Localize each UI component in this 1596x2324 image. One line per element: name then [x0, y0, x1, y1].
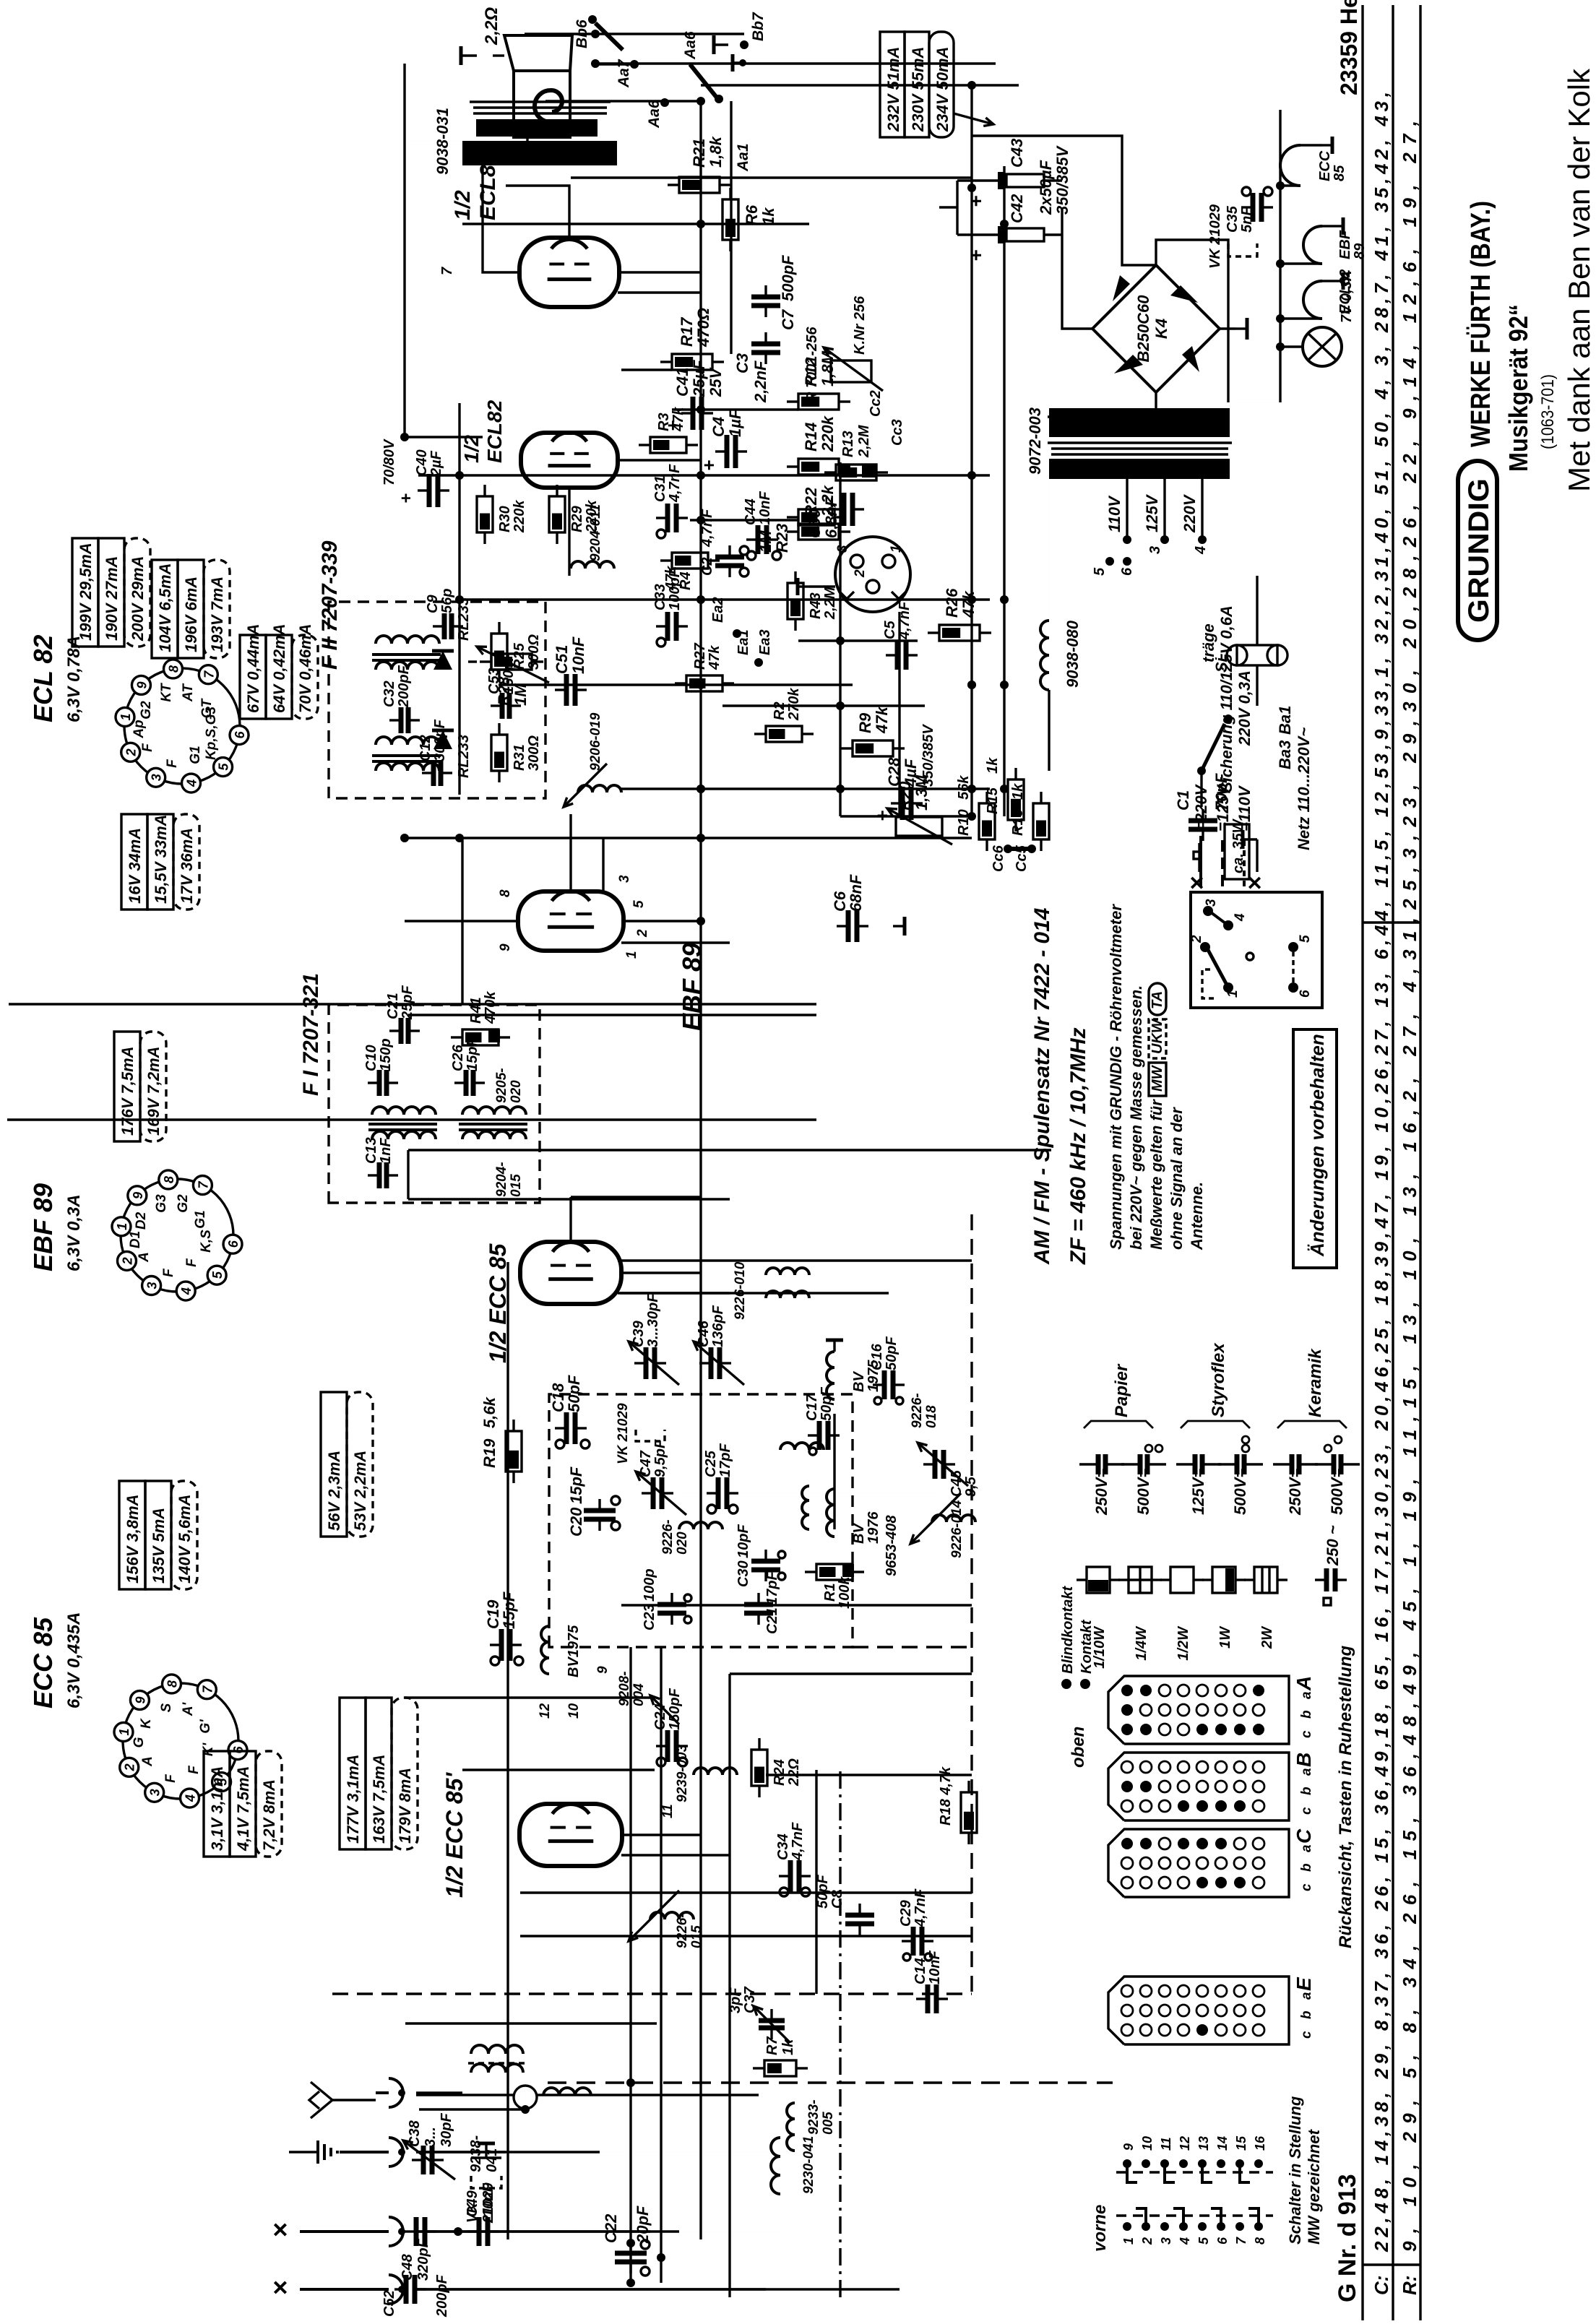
fm wire c — [679, 1493, 939, 1494]
capacitor C51 10nF — [553, 636, 587, 706]
svg-text:UKW: UKW — [1149, 1018, 1165, 1054]
FII cap C9 — [425, 589, 463, 639]
svg-text:176V 7,5mA: 176V 7,5mA — [118, 1046, 137, 1136]
fm wire b — [618, 1292, 889, 1294]
svg-text:b: b — [1299, 1863, 1314, 1872]
legend group Keramik — [1277, 1348, 1347, 1428]
speaker contact Aa7 — [595, 59, 639, 88]
labels Ea — [710, 597, 773, 667]
svg-text:004: 004 — [631, 1683, 647, 1706]
svg-text:6,3V 0,78A: 6,3V 0,78A — [64, 636, 84, 722]
svg-text:5,6k: 5,6k — [480, 1396, 499, 1428]
tap pins — [1092, 535, 1209, 576]
svg-text:R13: R13 — [840, 431, 856, 457]
fm wire d — [621, 1604, 972, 1606]
svg-text:ECL 82: ECL 82 — [28, 635, 58, 722]
cap C29 4,7nF — [898, 1888, 933, 1961]
coil 9239-003 — [675, 1744, 737, 1802]
cap C18 50pF — [549, 1375, 590, 1448]
svg-text:150pF: 150pF — [501, 652, 517, 694]
trimmer C39 3..30pF — [629, 1293, 679, 1385]
voltage box ECC85 k — [204, 1751, 282, 1857]
label C42 C43 — [1008, 139, 1071, 223]
capacitor C4 4uF — [698, 409, 747, 471]
res R3 47k — [639, 407, 698, 453]
output transformer primary bar — [462, 141, 617, 165]
res R4 47k — [660, 553, 720, 591]
svg-text:5nF: 5nF — [1239, 207, 1255, 233]
svg-text:47k: 47k — [873, 706, 891, 734]
svg-text:7: 7 — [1234, 2237, 1248, 2245]
svg-text:9230-041: 9230-041 — [801, 2136, 816, 2194]
svg-text:13: 13 — [1196, 2136, 1211, 2151]
voltage box ECL82 g2 — [152, 560, 230, 658]
power transformer label — [1026, 407, 1044, 475]
resistor R28 1M — [477, 647, 549, 706]
svg-text:Netz 110...220V~: Netz 110...220V~ — [1295, 727, 1313, 850]
svg-text:9226-: 9226- — [910, 1393, 925, 1428]
antenna symbol — [309, 2082, 376, 2118]
X jack 3 — [265, 2217, 405, 2246]
label 1/2 ECC85 — [485, 1243, 511, 1363]
svg-text:232V 51mA: 232V 51mA — [884, 47, 902, 132]
svg-text:2,2M: 2,2M — [822, 586, 838, 620]
cap C47 9,5pF variable — [636, 1439, 686, 1515]
svg-text:4: 4 — [1178, 2237, 1192, 2245]
resistor R6 1k — [722, 188, 777, 251]
svg-text:Sicherung 110/125V 0,6A: Sicherung 110/125V 0,6A — [1217, 605, 1235, 792]
wire rail 2971 — [571, 176, 972, 178]
svg-text:190V 27mA: 190V 27mA — [103, 556, 121, 641]
svg-text:Cc2: Cc2 — [868, 390, 884, 417]
coil pair mixer out — [766, 1268, 809, 1298]
res R2 270k — [754, 688, 814, 742]
socket diagram EBF89 — [112, 1170, 242, 1300]
svg-text:C51: C51 — [553, 645, 571, 674]
trimmer C46 136pF — [694, 1305, 744, 1385]
svg-text:4: 4 — [1193, 546, 1209, 555]
svg-text:C12: C12 — [418, 735, 433, 761]
svg-text:C31: C31 — [652, 475, 668, 502]
res R43 2,2M — [788, 571, 838, 631]
sheet number G Nr. d 913 — [1334, 2174, 1361, 2302]
heater chain to transformer — [1232, 360, 1280, 402]
voltage box ECL82 k — [121, 814, 199, 910]
svg-text:ohne Signal an der: ohne Signal an der — [1168, 1107, 1186, 1250]
dashed am line — [970, 1211, 972, 1992]
EBF screen wire — [569, 814, 571, 891]
label Schalter in Stellung — [1286, 2096, 1323, 2245]
svg-text:196V 6mA: 196V 6mA — [182, 576, 200, 652]
wire B+ rail 1 — [595, 62, 996, 64]
svg-text:6: 6 — [1119, 567, 1135, 576]
svg-text:Musikgerät 92“: Musikgerät 92“ — [1504, 304, 1533, 472]
svg-text:bei 220V~ gegen Masse gemessen: bei 220V~ gegen Masse gemessen. — [1127, 985, 1145, 1250]
junction dots c — [1000, 220, 1009, 793]
bridge right wire — [1156, 240, 1228, 402]
wire mix3 — [520, 1935, 972, 1937]
coil 9206-019 — [564, 712, 621, 807]
EBF anode wire — [405, 920, 518, 922]
svg-text:9226-: 9226- — [660, 1519, 676, 1555]
svg-text:10: 10 — [566, 1703, 582, 1719]
Cc2 Cc3 labels — [868, 390, 905, 446]
svg-text:15,5V 33mA: 15,5V 33mA — [152, 814, 170, 904]
svg-text:6,3V 0,435A: 6,3V 0,435A — [64, 1612, 84, 1709]
label EBF89 — [677, 943, 707, 1031]
wire v2987 loop — [971, 136, 1156, 265]
svg-text:11: 11 — [660, 1804, 676, 1818]
svg-text:500V=: 500V= — [1134, 1469, 1152, 1515]
svg-text:C3: C3 — [733, 353, 751, 373]
label 9226-018 — [910, 1393, 939, 1428]
bus x1667 — [7, 1118, 816, 1120]
wire mix2 — [520, 1891, 972, 1893]
wire h565 — [407, 1150, 409, 1199]
wire v2559 — [418, 474, 990, 476]
svg-text:C23: C23 — [642, 1604, 657, 1630]
cap C24 150pF — [652, 1688, 688, 1766]
svg-text:C37: C37 — [742, 1986, 758, 2013]
svg-text:C48: C48 — [400, 2253, 415, 2281]
svg-text:träge: träge — [1199, 623, 1217, 662]
svg-text:R17: R17 — [678, 316, 696, 347]
svg-text:R43: R43 — [808, 592, 824, 619]
fm wire e — [571, 1197, 701, 1243]
cap C21b 17pF — [744, 1571, 780, 1634]
svg-text:C21: C21 — [764, 1607, 780, 1634]
ferrite coupling coil — [419, 2086, 591, 2172]
svg-text:10pF: 10pF — [736, 1524, 751, 1558]
svg-text:F: F — [140, 743, 155, 752]
svg-text:F: F — [165, 759, 180, 768]
svg-text:89: 89 — [1352, 243, 1368, 259]
VK21029 tuner dashed — [616, 1403, 665, 1464]
svg-text:EBF 89: EBF 89 — [28, 1183, 58, 1271]
svg-text:G3: G3 — [154, 1194, 169, 1213]
svg-text:4,7nF: 4,7nF — [790, 1822, 806, 1861]
cap C23 100p — [642, 1568, 691, 1630]
svg-text:AT: AT — [181, 683, 196, 702]
svg-text:8: 8 — [162, 1176, 176, 1183]
wire w2 — [798, 639, 918, 642]
svg-text:020: 020 — [675, 1532, 690, 1555]
svg-text:MW: MW — [1149, 1064, 1165, 1092]
svg-text:1k: 1k — [759, 207, 777, 225]
note 23359 He — [1336, 0, 1362, 95]
svg-text:C21: C21 — [385, 993, 401, 1019]
svg-text:C47: C47 — [638, 1450, 654, 1477]
svg-text:=220V: =220V — [1192, 783, 1210, 831]
svg-text:5: 5 — [217, 763, 231, 771]
svg-text:1: 1 — [117, 1728, 131, 1735]
svg-text:9038-031: 9038-031 — [433, 108, 452, 175]
svg-text:1: 1 — [624, 951, 639, 959]
svg-text:C42: C42 — [1008, 194, 1026, 223]
mains X terminal 2 — [1241, 830, 1269, 890]
svg-text:R26: R26 — [943, 588, 961, 618]
resistor R21 1,8k — [668, 135, 731, 193]
svg-text:G: G — [131, 1737, 147, 1748]
label oben — [1069, 1727, 1088, 1768]
bus x1827 — [9, 1003, 816, 1005]
svg-text:K.Nr 256: K.Nr 256 — [852, 295, 868, 355]
svg-text:C45: C45 — [949, 1469, 965, 1497]
svg-text:C35: C35 — [1225, 205, 1241, 233]
svg-text:R21: R21 — [690, 139, 708, 168]
svg-text:2: 2 — [124, 748, 139, 756]
wire C42 C43 join — [939, 181, 957, 235]
res R19 5,6k — [480, 1396, 522, 1483]
fm wire f — [833, 1414, 835, 1529]
legend group Styroflex — [1181, 1342, 1250, 1428]
pin 7 label — [439, 267, 455, 275]
svg-text:D2: D2 — [134, 1211, 149, 1230]
power transformer primary bar — [1049, 408, 1230, 437]
svg-text:WERKE FÜRTH (BAY.): WERKE FÜRTH (BAY.) — [1465, 201, 1496, 447]
svg-text:220k: 220k — [584, 500, 600, 533]
svg-text:KT: KT — [159, 683, 174, 702]
svg-text:R14: R14 — [802, 423, 820, 452]
svg-text:6: 6 — [233, 731, 247, 739]
svg-text:1/2: 1/2 — [460, 435, 483, 463]
svg-text:15pF: 15pF — [567, 1466, 585, 1504]
bridge rectifier B250C60 — [1092, 265, 1220, 392]
wire jack1 long — [416, 2094, 759, 2096]
svg-text:×: × — [265, 2222, 295, 2237]
wire y1390 rail — [1003, 166, 1005, 816]
svg-text:4: 4 — [179, 1287, 194, 1295]
wire y1130 mix — [815, 1770, 817, 1994]
FII resistor R25 300 — [491, 622, 542, 681]
resistor R22 2,2k — [787, 484, 850, 540]
svg-text:Ap: Ap — [131, 720, 147, 738]
svg-text:22,48, 14,38, 29,: 22,48, 14,38, 29, 8,37, 36, 26, 15, 36,4… — [1371, 92, 1392, 2252]
FII resistor R31 300 — [491, 723, 542, 782]
capacitor C7 500pF — [751, 255, 797, 330]
svg-text:68nF: 68nF — [847, 874, 865, 912]
FII coil pair 1 — [372, 737, 441, 771]
svg-text:BV: BV — [851, 1523, 867, 1544]
svg-text:B250C60: B250C60 — [1134, 295, 1152, 363]
legend cap small circles — [1145, 1436, 1342, 1452]
svg-text:2: 2 — [1189, 935, 1204, 943]
svg-text:C34: C34 — [775, 1833, 791, 1860]
switch table C — [1108, 1828, 1315, 1897]
svg-text:020: 020 — [509, 1080, 524, 1103]
svg-text:9204-: 9204- — [494, 1162, 509, 1197]
svg-text:1/2W: 1/2W — [1176, 1625, 1191, 1661]
svg-text:Schalter in Stellung: Schalter in Stellung — [1286, 2096, 1304, 2245]
svg-text:GT: GT — [199, 698, 215, 718]
svg-text:17pF: 17pF — [764, 1571, 780, 1605]
svg-text:1: 1 — [1225, 990, 1241, 998]
tube data ECL 82 — [28, 635, 84, 722]
svg-text:R15: R15 — [985, 787, 1001, 814]
svg-text:9226-: 9226- — [675, 1913, 690, 1948]
svg-text:470k: 470k — [483, 991, 499, 1024]
coil osc — [780, 1443, 824, 1529]
cap C52 200pF — [381, 2274, 450, 2317]
svg-text:350/385V: 350/385V — [1053, 144, 1071, 215]
svg-text:Bb7: Bb7 — [750, 12, 767, 41]
svg-text:100p: 100p — [642, 1568, 657, 1602]
label 9233-005 — [806, 2099, 836, 2135]
bus y970 — [699, 101, 702, 2239]
svg-text:K4: K4 — [1152, 319, 1170, 339]
power transformer secondary bar — [1049, 459, 1230, 479]
tube 1/2 ECC85 rf — [520, 1242, 621, 1304]
svg-text:F: F — [161, 1268, 176, 1277]
svg-text:C29: C29 — [898, 1899, 914, 1927]
svg-text:470Ω: 470Ω — [694, 308, 712, 347]
svg-text:ECL82: ECL82 — [476, 152, 500, 220]
cap C5 4,7nF — [882, 601, 918, 670]
coil 9226-020 — [660, 1519, 722, 1555]
svg-text:018: 018 — [924, 1405, 939, 1428]
svg-text:22Ω: 22Ω — [786, 1758, 802, 1787]
svg-text:b: b — [1299, 2010, 1314, 2019]
svg-text:G': G' — [198, 1719, 213, 1734]
svg-text:C14: C14 — [913, 1958, 928, 1984]
svg-text:C32: C32 — [381, 681, 397, 707]
wire g2 — [506, 186, 569, 238]
svg-text:A: A — [137, 1252, 152, 1263]
svg-text:Ba3: Ba3 — [1276, 740, 1294, 769]
svg-text:A: A — [140, 1756, 155, 1767]
res R24 22 — [751, 1738, 802, 1797]
VK21029 am dashed — [465, 2143, 501, 2224]
svg-text:4: 4 — [1233, 913, 1248, 922]
coil 9226-014 arrow — [910, 1493, 975, 1558]
svg-text:C39: C39 — [631, 1320, 647, 1347]
svg-text:9: 9 — [595, 1666, 611, 1674]
svg-text:K: K — [139, 1718, 154, 1729]
svg-text:156V 3,8mA: 156V 3,8mA — [124, 1494, 142, 1584]
svg-text:140V 5,6mA: 140V 5,6mA — [176, 1494, 194, 1584]
mains switch Ba3 Ba1 — [1197, 706, 1313, 850]
wire B+ rail 2 — [701, 84, 1019, 86]
svg-text:500V=: 500V= — [1328, 1469, 1346, 1515]
svg-text:b: b — [1299, 1710, 1314, 1719]
socket diagram ECL82 — [116, 660, 249, 792]
wire v2387 — [459, 598, 990, 600]
svg-text:C41: C41 — [673, 368, 691, 397]
dashed am line 2 — [853, 1646, 972, 1648]
svg-text:oben: oben — [1069, 1727, 1088, 1768]
svg-text:Blindkontakt: Blindkontakt — [1060, 1586, 1076, 1674]
speaker switch Bb7 — [714, 12, 767, 54]
svg-text:270k: 270k — [786, 688, 802, 721]
resistor R26 47k — [928, 588, 991, 641]
svg-text:Aa1: Aa1 — [735, 143, 751, 172]
svg-text:9226-010: 9226-010 — [733, 1261, 748, 1320]
wire x jack3 long — [416, 2230, 679, 2232]
legend Aenderungen box — [1293, 1029, 1337, 1268]
svg-text:125V=: 125V= — [1189, 1469, 1207, 1515]
svg-text:BV1975: BV1975 — [566, 1625, 582, 1677]
legend group Papier — [1084, 1363, 1153, 1428]
label 1/2 ECC85 mixer — [441, 1772, 467, 1898]
svg-text:1976: 1976 — [866, 1511, 881, 1544]
svg-text:100k: 100k — [837, 1576, 853, 1609]
svg-text:G2: G2 — [139, 701, 154, 720]
svg-text:1/4W: 1/4W — [1134, 1625, 1149, 1661]
label R: — [1399, 2276, 1420, 2295]
res R13 2,2M — [824, 424, 888, 480]
wire h636 — [458, 403, 460, 795]
EBF pin numbers — [498, 875, 650, 959]
svg-text:a: a — [1299, 1768, 1314, 1776]
svg-text:300pF: 300pF — [432, 719, 448, 761]
heater bulb EBF89 — [1276, 217, 1368, 268]
svg-text:=110V: =110V — [1235, 785, 1254, 831]
svg-text:300Ω: 300Ω — [526, 735, 542, 771]
R row numbers — [1399, 121, 1420, 2252]
label 1/2 ECL82 triode — [460, 399, 506, 463]
svg-text:23359 He: 23359 He — [1336, 0, 1362, 95]
svg-text:F I 7207-321: F I 7207-321 — [299, 973, 323, 1096]
FI cap C10 150pF — [363, 1038, 398, 1096]
cap C2 4,7nF — [699, 509, 749, 577]
input wires — [454, 2227, 780, 2247]
cap C8 50pF — [815, 1875, 874, 1935]
wire v2269 — [499, 683, 853, 686]
svg-text:11: 11 — [1159, 2137, 1173, 2151]
svg-text:R19: R19 — [480, 1438, 499, 1468]
speaker top rail — [525, 20, 744, 34]
junction dots e — [696, 183, 976, 793]
svg-text:70/80V: 70/80V — [381, 439, 397, 485]
svg-text:9226-014: 9226-014 — [949, 1500, 965, 1558]
bus x1625 — [408, 1149, 1051, 1151]
svg-text:1k: 1k — [780, 2039, 796, 2055]
wire rail top — [545, 100, 701, 102]
svg-text:56V 2,3mA: 56V 2,3mA — [325, 1451, 343, 1531]
bus y1163 right — [839, 462, 841, 816]
svg-text:C30: C30 — [736, 1560, 751, 1587]
svg-text:Styroflex: Styroflex — [1209, 1342, 1228, 1417]
svg-text:67V 0,44mA: 67V 0,44mA — [244, 623, 262, 713]
tube data EBF 89 — [28, 1183, 84, 1271]
svg-text:163V 7,5mA: 163V 7,5mA — [370, 1754, 388, 1844]
svg-text:3: 3 — [145, 1282, 160, 1289]
trimmer C38 3..30pF — [403, 2113, 455, 2180]
svg-text:6,3V 0,3A: 6,3V 0,3A — [64, 1194, 84, 1271]
voltage box ECC85 a2 — [340, 1698, 418, 1849]
svg-text:2µF: 2µF — [428, 450, 444, 477]
cap C37 3pF — [728, 1986, 790, 2042]
FII cap C12 — [418, 719, 452, 786]
input coil lower — [506, 2103, 795, 2152]
cap C22 20pF — [602, 2206, 652, 2276]
svg-text:1µF: 1µF — [726, 409, 744, 437]
res R18 4,7k — [938, 1766, 977, 1844]
svg-text:C17: C17 — [804, 1394, 820, 1421]
mains X terminal 1 — [1183, 843, 1211, 890]
svg-text:4,7nF: 4,7nF — [667, 464, 683, 503]
svg-text:10nF: 10nF — [927, 1951, 943, 1984]
wire OT B+ — [405, 64, 483, 141]
ECC85 mixer stub — [621, 1835, 730, 1855]
svg-text:R31: R31 — [512, 744, 527, 771]
voltage selector box — [1189, 892, 1322, 1008]
svg-text:A: A — [1293, 1676, 1315, 1691]
svg-text:5: 5 — [210, 1271, 225, 1279]
mains tap 110V — [1105, 459, 1127, 540]
svg-text:3: 3 — [1159, 2237, 1173, 2245]
wire rail 2907 — [462, 223, 809, 225]
